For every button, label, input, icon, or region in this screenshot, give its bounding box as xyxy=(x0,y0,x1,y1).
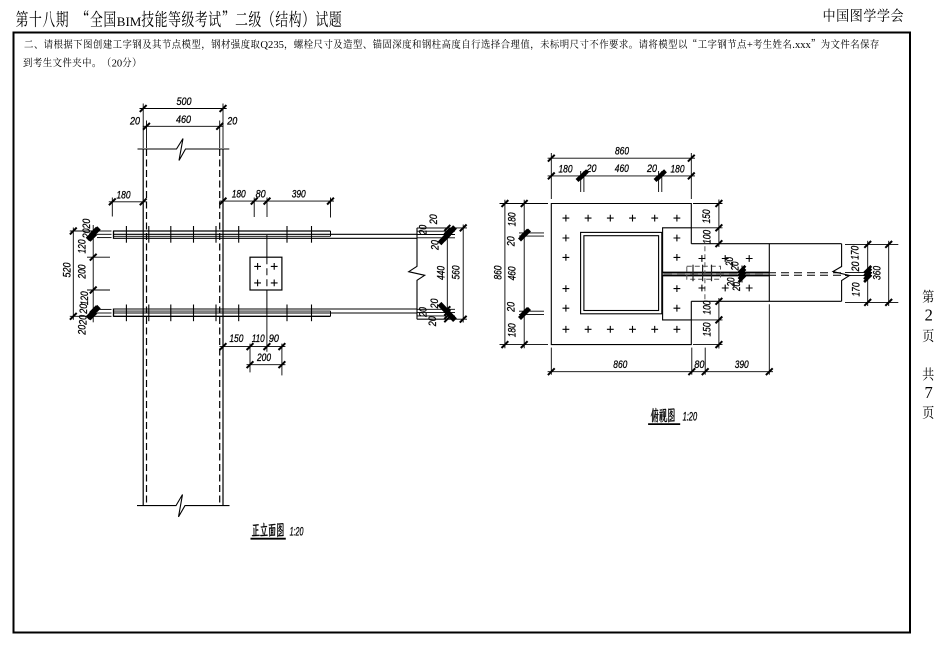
column top break line xyxy=(138,139,230,161)
column bottom break line xyxy=(137,495,230,517)
svg-text:180: 180 xyxy=(671,163,686,175)
svg-text:150: 150 xyxy=(702,322,714,337)
svg-text:20: 20 xyxy=(78,314,90,325)
dimension 560 beam overall depth xyxy=(417,227,467,229)
tick cluster blob top right end xyxy=(440,227,456,244)
svg-text:180: 180 xyxy=(559,163,574,175)
dimension 180 left of column xyxy=(111,198,113,217)
beam bottom flange bottom line xyxy=(114,312,418,314)
svg-text:20: 20 xyxy=(731,281,743,291)
svg-text:180: 180 xyxy=(507,212,519,227)
svg-text:460: 460 xyxy=(507,266,519,281)
far right dimension chain 170 20 20 170 xyxy=(845,243,898,245)
bottom cover plate end cap xyxy=(330,311,332,316)
svg-text:460: 460 xyxy=(176,114,192,126)
caption front elevation xyxy=(252,524,260,536)
svg-text:20: 20 xyxy=(81,218,93,229)
beam top flange top line xyxy=(114,233,418,235)
svg-text:170: 170 xyxy=(849,245,861,260)
beam top cover inner line xyxy=(114,235,331,237)
steel column right flange edge xyxy=(222,149,224,506)
svg-text:180: 180 xyxy=(232,189,247,201)
svg-text:20: 20 xyxy=(850,261,862,272)
svg-text:20: 20 xyxy=(417,224,429,235)
svg-text:80: 80 xyxy=(256,189,267,201)
right side dimension 150 100 top xyxy=(693,203,723,205)
svg-text:20: 20 xyxy=(586,163,597,175)
base plate bolts left column xyxy=(563,235,570,242)
svg-text:390: 390 xyxy=(735,359,750,371)
svg-text:170: 170 xyxy=(851,282,863,297)
svg-text:1:20: 1:20 xyxy=(290,527,304,539)
svg-text:120: 120 xyxy=(79,291,91,306)
problem statement line 2 xyxy=(23,58,32,67)
svg-text:20: 20 xyxy=(129,115,140,127)
base plate outline top view xyxy=(551,204,691,345)
svg-text:20: 20 xyxy=(429,298,441,309)
top dimension 860 overall xyxy=(550,153,552,199)
svg-text:20: 20 xyxy=(112,58,123,69)
dimension chain 20 20 120 200 120 20 20 left side xyxy=(92,225,94,322)
box column inner wall top view xyxy=(584,236,659,311)
base plate bolts right column xyxy=(674,235,681,242)
web splice centre line xyxy=(266,235,268,257)
svg-text:20: 20 xyxy=(417,306,429,317)
hidden splice plate rectangle xyxy=(687,266,721,279)
svg-text:20: 20 xyxy=(81,228,93,239)
beam web hidden dashed lines xyxy=(664,272,842,274)
svg-text:150: 150 xyxy=(701,209,713,224)
problem statement line 1 xyxy=(24,40,33,47)
svg-text:180: 180 xyxy=(507,323,519,338)
svg-text:860: 860 xyxy=(493,265,505,280)
svg-text:100: 100 xyxy=(702,300,714,315)
beam bottom flange top line xyxy=(114,308,418,310)
gusset plate outline on base plate xyxy=(663,228,692,320)
svg-text:150: 150 xyxy=(229,333,244,345)
svg-text:90: 90 xyxy=(269,333,280,345)
svg-text:2: 2 xyxy=(925,305,933,324)
page number margin text xyxy=(923,290,934,303)
dimension chain 520 left side xyxy=(70,230,97,232)
dimension chain 180 80 390 right of column xyxy=(253,198,255,218)
svg-text:20: 20 xyxy=(429,239,441,250)
web splice bolt ticks top view xyxy=(692,265,694,282)
left dimension chain 180 20 460 20 180 xyxy=(519,232,544,234)
svg-text:20: 20 xyxy=(506,236,518,247)
left dimension 860 overall xyxy=(500,203,549,205)
right end dimension extension lines bottom xyxy=(417,318,455,320)
base plate bolts top row xyxy=(563,215,570,222)
beam top cover plate top line xyxy=(114,230,331,232)
dimension 500 (column width) xyxy=(142,104,144,149)
steel column left flange edge xyxy=(142,149,144,506)
header title: exam title xyxy=(16,11,28,27)
svg-text:20: 20 xyxy=(730,261,742,271)
svg-text:20: 20 xyxy=(76,324,88,335)
svg-text:560: 560 xyxy=(451,265,463,280)
beam top flange bottom line xyxy=(114,237,418,239)
svg-text:520: 520 xyxy=(61,262,73,278)
svg-text:460: 460 xyxy=(615,163,630,175)
top cover plate end cap xyxy=(330,231,332,236)
svg-text:500: 500 xyxy=(177,96,193,108)
caption top view xyxy=(651,408,659,422)
svg-text:360: 360 xyxy=(872,265,884,280)
steel column right inner dashed line xyxy=(219,149,221,506)
svg-text:100: 100 xyxy=(702,229,714,244)
base plate bolts bottom row xyxy=(563,326,570,333)
splice bolts top view xyxy=(699,255,706,262)
svg-text:200: 200 xyxy=(76,264,88,279)
svg-text:860: 860 xyxy=(615,145,630,157)
svg-text:20: 20 xyxy=(427,316,439,327)
beam left end cap top xyxy=(113,231,115,239)
right side dimension 100 150 bottom xyxy=(691,319,722,321)
box column outer wall top view xyxy=(581,232,662,313)
beam left end cap bottom xyxy=(113,309,115,317)
svg-text:200: 200 xyxy=(256,352,271,364)
web splice plate xyxy=(250,257,282,290)
far right dimension 360 xyxy=(888,241,890,306)
beam top flange edge top view xyxy=(691,243,841,245)
svg-text:180: 180 xyxy=(117,189,132,201)
dimension 440 beam inner depth xyxy=(446,238,448,309)
svg-text:20: 20 xyxy=(646,163,657,175)
svg-text:390: 390 xyxy=(292,189,307,201)
svg-text:20: 20 xyxy=(428,214,440,225)
bolt tick marks on beam flanges xyxy=(125,226,127,243)
beam web solid lines top view xyxy=(663,271,770,273)
svg-text:80: 80 xyxy=(694,359,705,371)
svg-text:7: 7 xyxy=(924,383,932,402)
svg-text:440: 440 xyxy=(435,265,447,280)
right end dimension extension lines and 20 labels top xyxy=(417,227,455,229)
svg-text:1:20: 1:20 xyxy=(683,412,698,424)
svg-text:860: 860 xyxy=(613,359,628,371)
header right: org name xyxy=(824,9,835,22)
svg-text:20: 20 xyxy=(226,115,237,127)
dimension 460 (column inner width) xyxy=(146,121,148,149)
splice bolts front view xyxy=(254,263,261,270)
svg-text:.xxx: .xxx xyxy=(792,40,811,51)
tick cluster blob bottom right end xyxy=(440,304,456,321)
beam bottom cover plate bottom line xyxy=(114,315,331,317)
svg-text:20: 20 xyxy=(506,301,518,312)
svg-text:20: 20 xyxy=(78,303,90,314)
svg-text:Q235: Q235 xyxy=(260,40,284,51)
beam bottom flange edge top view xyxy=(691,300,841,302)
top dimension chain 180 20 460 20 180 xyxy=(580,171,582,192)
bottom dimension chain 860 80 390 xyxy=(550,348,552,375)
bottom dimension 200 xyxy=(247,364,286,366)
svg-text:BIM: BIM xyxy=(117,14,142,29)
svg-text:120: 120 xyxy=(76,239,88,254)
bottom dimension chain 150 110 90 xyxy=(249,344,251,373)
hidden beam end line dashed xyxy=(704,246,706,299)
steel column left inner dashed line xyxy=(146,149,148,506)
beam bottom cover inner line xyxy=(114,310,331,312)
beam end break line top view xyxy=(833,244,850,302)
mini dimension 20 20 20 at web xyxy=(739,266,746,273)
svg-text:+: + xyxy=(747,40,753,51)
svg-text:110: 110 xyxy=(252,333,266,345)
beam right end line with break xyxy=(409,228,425,319)
cover plate end line top view xyxy=(768,244,770,302)
